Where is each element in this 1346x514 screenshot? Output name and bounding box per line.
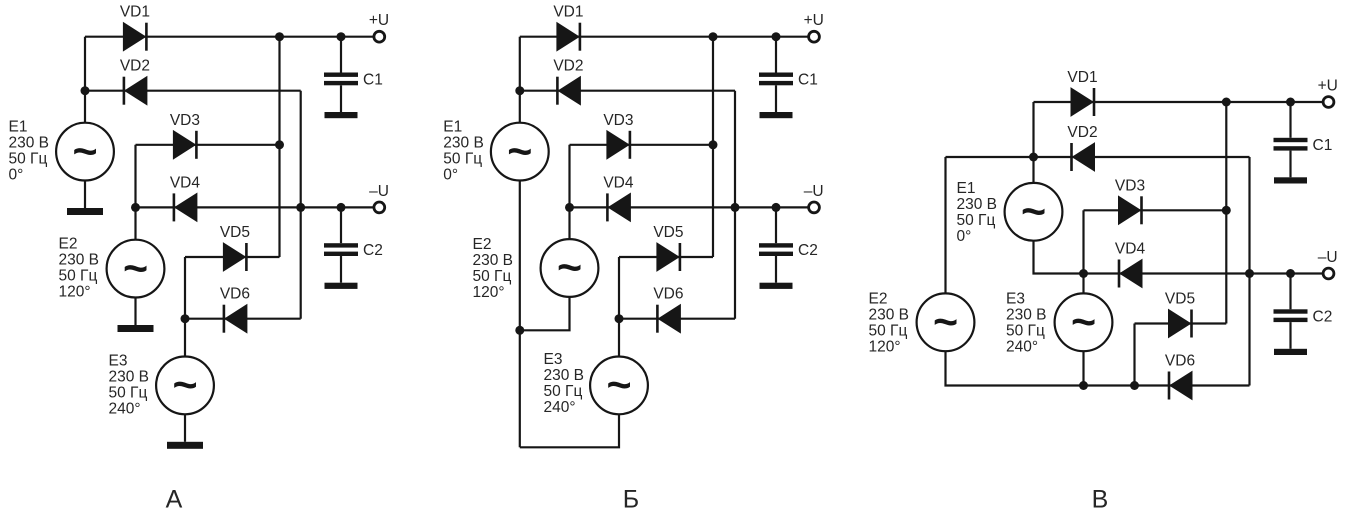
label E3 value (circuit A) bbox=[109, 352, 150, 417]
svg-text:VD1: VD1 bbox=[553, 4, 583, 21]
label E2 value (circuit A) bbox=[59, 236, 100, 301]
junction C1 tap (circuit V) bbox=[1286, 98, 1295, 107]
diode VD6 (circuit B) bbox=[657, 305, 680, 333]
wire E3 top lead (circuit B) bbox=[618, 257, 620, 357]
source E1 (circuit A) bbox=[56, 123, 114, 181]
wire E3 top lead (circuit A) bbox=[184, 257, 186, 357]
junction -U rail (circuit V) bbox=[1245, 269, 1254, 278]
terminal +U (circuit B) bbox=[809, 31, 820, 42]
wire E1 bottom lead (circuit A) bbox=[84, 181, 86, 209]
wire VD6 row (circuit B) bbox=[619, 318, 735, 320]
capacitor C2 (circuit A) bbox=[324, 207, 358, 289]
wire VD3 row (circuit A) bbox=[136, 144, 280, 146]
diode VD4 (circuit V) bbox=[1119, 260, 1142, 288]
diode VD2 (circuit A) bbox=[124, 77, 147, 105]
ground E2 (circuit A) bbox=[118, 325, 154, 332]
svg-text:VD5: VD5 bbox=[653, 224, 683, 241]
svg-text:+U: +U bbox=[804, 12, 824, 29]
svg-text:А: А bbox=[166, 486, 183, 514]
diode VD6 (circuit A) bbox=[224, 305, 247, 333]
wire bottom row VD6 (circuit V) bbox=[1084, 384, 1250, 386]
junction neutral E1/E2 (circuit B) bbox=[515, 326, 524, 335]
svg-text:~: ~ bbox=[933, 299, 958, 347]
svg-text:+U: +U bbox=[1318, 77, 1338, 94]
ground E1 (circuit A) bbox=[67, 208, 103, 215]
wire E1 top lead (circuit B) bbox=[519, 37, 521, 123]
svg-text:VD3: VD3 bbox=[1115, 177, 1145, 194]
junction E2/VD4 (circuit A) bbox=[131, 203, 140, 212]
wire E3 bottom lead (circuit A) bbox=[184, 414, 186, 442]
svg-text:230 В: 230 В bbox=[473, 252, 514, 269]
svg-text:120°: 120° bbox=[59, 284, 91, 301]
svg-text:VD2: VD2 bbox=[553, 58, 583, 75]
label E3 value (circuit V) bbox=[1006, 291, 1047, 356]
wire +U top rail (circuit V) bbox=[1034, 101, 1323, 103]
wire right vertical to -U collector (circuit B) bbox=[734, 91, 736, 319]
svg-text:50 Гц: 50 Гц bbox=[473, 268, 512, 285]
svg-text:50 Гц: 50 Гц bbox=[544, 383, 583, 400]
label E1 value (circuit A) bbox=[9, 119, 50, 184]
diode VD1 (circuit V) bbox=[1071, 88, 1094, 116]
svg-text:0°: 0° bbox=[957, 228, 972, 245]
junction E2/VD4 (circuit B) bbox=[565, 203, 574, 212]
svg-text:C2: C2 bbox=[798, 242, 818, 259]
svg-text:VD5: VD5 bbox=[220, 224, 250, 241]
source E2 (circuit B) bbox=[541, 239, 599, 297]
svg-text:~: ~ bbox=[557, 244, 582, 292]
svg-text:240°: 240° bbox=[544, 399, 576, 416]
diode VD2 (circuit V) bbox=[1072, 143, 1095, 171]
svg-text:E3: E3 bbox=[109, 352, 128, 369]
svg-text:E2: E2 bbox=[869, 291, 888, 308]
svg-text:C2: C2 bbox=[1313, 308, 1333, 325]
svg-text:VD1: VD1 bbox=[1067, 69, 1097, 86]
junction +U rail (circuit A) bbox=[275, 32, 284, 41]
wire +U top rail (circuit B) bbox=[520, 36, 808, 38]
wire right vertical to +U collector (circuit A) bbox=[278, 37, 280, 257]
svg-text:В: В bbox=[1092, 486, 1109, 514]
svg-text:VD3: VD3 bbox=[603, 112, 633, 129]
svg-text:~: ~ bbox=[507, 128, 532, 176]
junction E1 top/VD2 (circuit V) bbox=[1029, 153, 1038, 162]
junction C2 tap (circuit V) bbox=[1286, 269, 1295, 278]
svg-text:E1: E1 bbox=[957, 180, 976, 197]
diode VD3 (circuit A) bbox=[173, 131, 196, 159]
svg-text:–U: –U bbox=[804, 183, 824, 200]
source E2 (circuit A) bbox=[107, 240, 165, 298]
terminal -U (circuit B) bbox=[809, 202, 820, 213]
svg-text:230 В: 230 В bbox=[109, 368, 150, 385]
svg-text:VD4: VD4 bbox=[1115, 241, 1146, 258]
wire right vertical to +U collector (circuit V) bbox=[1225, 102, 1227, 324]
wire VD2 row (circuit V) bbox=[946, 156, 1250, 158]
wire E2 left vertical (circuit V) bbox=[944, 157, 946, 293]
junction C1 tap (circuit A) bbox=[337, 32, 346, 41]
capacitor C2 (circuit B) bbox=[759, 207, 793, 289]
svg-text:C1: C1 bbox=[1313, 137, 1333, 154]
wire -U row / VD4 row (circuit B) bbox=[570, 206, 808, 208]
junction E1/VD2 (circuit A) bbox=[81, 86, 90, 95]
junction +U rail (circuit B) bbox=[709, 32, 718, 41]
svg-text:240°: 240° bbox=[1006, 339, 1038, 356]
junction C2 tap (circuit B) bbox=[772, 203, 781, 212]
junction E3 bottom (circuit V) bbox=[1079, 381, 1088, 390]
svg-text:E2: E2 bbox=[473, 236, 492, 253]
wire E3 bottom lead (circuit V) bbox=[1082, 351, 1084, 385]
label E3 value (circuit B) bbox=[544, 351, 585, 416]
svg-text:~: ~ bbox=[172, 362, 197, 410]
svg-text:230 В: 230 В bbox=[957, 196, 998, 213]
wire E2 bottom lead (circuit V) bbox=[946, 351, 1084, 385]
wire bottom neutral run to E3 (circuit B) bbox=[520, 414, 619, 447]
junction VD3 cathode (circuit B) bbox=[709, 140, 718, 149]
svg-text:50 Гц: 50 Гц bbox=[9, 151, 48, 168]
terminal -U (circuit V) bbox=[1323, 268, 1334, 279]
wire +U top rail (circuit A) bbox=[85, 36, 373, 38]
junction VD3 cathode (circuit A) bbox=[275, 140, 284, 149]
svg-text:–U: –U bbox=[369, 183, 389, 200]
svg-text:E1: E1 bbox=[9, 119, 28, 136]
svg-text:120°: 120° bbox=[473, 284, 505, 301]
label E1 value (circuit V) bbox=[957, 180, 998, 245]
svg-text:VD1: VD1 bbox=[120, 4, 150, 21]
diode VD5 (circuit B) bbox=[657, 243, 680, 271]
wire E2 top lead (circuit A) bbox=[134, 145, 136, 240]
diode VD1 (circuit B) bbox=[557, 23, 580, 51]
wire E1 bottom neutral lead (circuit B) bbox=[519, 181, 521, 448]
source E3 (circuit V) bbox=[1055, 293, 1113, 351]
svg-text:50 Гц: 50 Гц bbox=[1006, 323, 1045, 340]
wire E1 bottom lead (circuit V) bbox=[1034, 241, 1084, 274]
junction -U rail (circuit B) bbox=[731, 203, 740, 212]
junction VD5 anode (circuit V) bbox=[1130, 381, 1139, 390]
svg-text:VD4: VD4 bbox=[170, 174, 201, 191]
junction C1 tap (circuit B) bbox=[772, 32, 781, 41]
capacitor C1 (circuit B) bbox=[759, 37, 793, 119]
junction E1-/E3+/VD3/VD4 node (circuit V) bbox=[1079, 269, 1088, 278]
svg-text:50 Гц: 50 Гц bbox=[443, 151, 482, 168]
wire -U row / VD4 row (circuit A) bbox=[136, 206, 374, 208]
wire VD2 row (circuit A) bbox=[85, 90, 301, 92]
source E2 (circuit V) bbox=[917, 293, 975, 351]
svg-text:230 В: 230 В bbox=[1006, 307, 1047, 324]
wire VD5 anode drop (circuit V) bbox=[1133, 324, 1135, 386]
svg-text:230 В: 230 В bbox=[443, 135, 484, 152]
svg-text:230 В: 230 В bbox=[869, 307, 910, 324]
svg-text:50 Гц: 50 Гц bbox=[869, 323, 908, 340]
junction -U rail (circuit A) bbox=[296, 203, 305, 212]
junction VD3 cathode (circuit V) bbox=[1222, 206, 1231, 215]
svg-text:E3: E3 bbox=[544, 351, 563, 368]
wire VD5 row (circuit V) bbox=[1135, 322, 1227, 324]
wire VD3 row (circuit V) bbox=[1084, 209, 1227, 211]
wire -U row / VD4 row (circuit V) bbox=[1084, 272, 1323, 274]
svg-text:0°: 0° bbox=[9, 167, 24, 184]
svg-text:C1: C1 bbox=[363, 72, 383, 89]
wire right vertical to -U collector (circuit A) bbox=[300, 91, 302, 319]
wire VD5 row (circuit A) bbox=[185, 256, 280, 258]
svg-text:VD6: VD6 bbox=[653, 286, 683, 303]
svg-text:VD5: VD5 bbox=[1165, 291, 1195, 308]
diode VD5 (circuit V) bbox=[1169, 310, 1192, 338]
svg-text:~: ~ bbox=[1021, 188, 1046, 236]
wire E2 bottom lead (circuit A) bbox=[134, 298, 136, 326]
wire VD5 row (circuit B) bbox=[619, 256, 713, 258]
source E3 (circuit A) bbox=[156, 357, 214, 415]
svg-text:E2: E2 bbox=[59, 236, 78, 253]
junction E3/VD6 (circuit B) bbox=[615, 314, 624, 323]
capacitor C2 (circuit V) bbox=[1274, 274, 1308, 356]
junction +U rail (circuit V) bbox=[1222, 98, 1231, 107]
diode VD2 (circuit B) bbox=[557, 77, 580, 105]
wire E3 top lead (circuit V) bbox=[1082, 274, 1084, 294]
svg-text:VD4: VD4 bbox=[603, 174, 634, 191]
wire E2 bottom to neutral (circuit B) bbox=[520, 297, 570, 330]
svg-text:C1: C1 bbox=[798, 72, 818, 89]
svg-text:E1: E1 bbox=[443, 119, 462, 136]
wire VD3 row (circuit B) bbox=[570, 144, 714, 146]
svg-text:230 В: 230 В bbox=[9, 135, 50, 152]
wire VD2 row (circuit B) bbox=[520, 90, 735, 92]
label E2 value (circuit V) bbox=[869, 291, 910, 356]
wire VD6 row (circuit A) bbox=[185, 318, 301, 320]
svg-text:230 В: 230 В bbox=[544, 367, 585, 384]
source E1 (circuit V) bbox=[1005, 183, 1063, 241]
source E1 (circuit B) bbox=[491, 123, 549, 181]
diode VD4 (circuit B) bbox=[607, 193, 630, 221]
svg-text:E3: E3 bbox=[1006, 291, 1025, 308]
diode VD6 (circuit V) bbox=[1169, 372, 1192, 400]
svg-text:120°: 120° bbox=[869, 339, 901, 356]
label E2 value (circuit B) bbox=[473, 236, 514, 301]
ground E3 (circuit A) bbox=[167, 442, 203, 449]
capacitor C1 (circuit A) bbox=[324, 37, 358, 119]
svg-text:VD6: VD6 bbox=[1165, 353, 1195, 370]
label E1 value (circuit B) bbox=[443, 119, 484, 184]
svg-text:–U: –U bbox=[1318, 249, 1338, 266]
svg-text:~: ~ bbox=[123, 245, 148, 293]
wire E1 top lead (circuit V) bbox=[1032, 102, 1034, 183]
diode VD5 (circuit A) bbox=[223, 243, 246, 271]
svg-text:50 Гц: 50 Гц bbox=[59, 268, 98, 285]
svg-text:VD6: VD6 bbox=[220, 286, 250, 303]
wire E2 top lead (circuit B) bbox=[568, 145, 570, 239]
wire VD3 anode drop (circuit V) bbox=[1082, 210, 1084, 273]
wire E1 top lead (circuit A) bbox=[84, 37, 86, 123]
junction E1/VD2 (circuit B) bbox=[515, 86, 524, 95]
svg-text:0°: 0° bbox=[443, 167, 458, 184]
junction C2 tap (circuit A) bbox=[337, 203, 346, 212]
svg-text:50 Гц: 50 Гц bbox=[957, 212, 996, 229]
svg-text:VD2: VD2 bbox=[120, 58, 150, 75]
svg-text:230 В: 230 В bbox=[59, 252, 100, 269]
svg-text:~: ~ bbox=[1071, 299, 1096, 347]
wire right vertical to +U collector (circuit B) bbox=[712, 37, 714, 257]
diode VD4 (circuit A) bbox=[174, 193, 197, 221]
capacitor C1 (circuit V) bbox=[1274, 102, 1308, 184]
svg-text:Б: Б bbox=[623, 486, 639, 514]
diode VD1 (circuit A) bbox=[123, 23, 146, 51]
svg-text:~: ~ bbox=[606, 362, 631, 410]
terminal +U (circuit A) bbox=[374, 31, 385, 42]
svg-text:50 Гц: 50 Гц bbox=[109, 384, 148, 401]
svg-text:VD2: VD2 bbox=[1067, 124, 1097, 141]
svg-text:240°: 240° bbox=[109, 400, 141, 417]
terminal -U (circuit A) bbox=[374, 202, 385, 213]
terminal +U (circuit V) bbox=[1323, 97, 1334, 108]
junction E3/VD6 (circuit A) bbox=[181, 314, 190, 323]
wire right vertical VD2->-U->VD6 (circuit V) bbox=[1248, 157, 1250, 386]
diode VD3 (circuit B) bbox=[607, 131, 630, 159]
source E3 (circuit B) bbox=[590, 357, 648, 415]
diode VD3 (circuit V) bbox=[1119, 196, 1142, 224]
svg-text:VD3: VD3 bbox=[170, 112, 200, 129]
svg-text:+U: +U bbox=[369, 12, 389, 29]
svg-text:C2: C2 bbox=[363, 242, 383, 259]
svg-text:~: ~ bbox=[72, 128, 97, 176]
